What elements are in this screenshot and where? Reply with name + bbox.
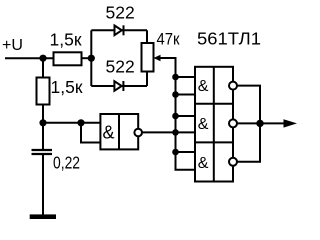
resistor R1 1,5k horizontal body xyxy=(54,52,82,65)
IC D1.2-D1.4 buffer gates body xyxy=(195,67,233,182)
ground symbol xyxy=(30,214,56,219)
wire input +U xyxy=(5,57,54,59)
wire R1 to diode loop xyxy=(82,57,92,59)
wire to potentiometer top xyxy=(146,30,148,43)
node bus junction 4 xyxy=(172,129,179,136)
node bus junction 3 xyxy=(172,113,179,120)
gate D1.3 output inversion circle xyxy=(229,119,237,127)
svg-text:1,5к: 1,5к xyxy=(51,77,83,97)
wire capacitor to ground xyxy=(42,155,44,215)
svg-text:&: & xyxy=(198,78,209,95)
wire output xyxy=(260,122,285,124)
wire R2 bottom lead to RC node xyxy=(42,105,44,150)
diode VD2 522 (bottom) xyxy=(114,81,121,91)
wire wiper to bus xyxy=(160,58,196,170)
node gate input tie junction xyxy=(77,119,84,126)
wire bus stub input 2 xyxy=(176,94,196,96)
wire diode loop left vertical xyxy=(90,30,92,86)
svg-text:&: & xyxy=(103,123,115,143)
wire bus stub input 3 xyxy=(176,115,196,117)
node bus junction 1 xyxy=(172,74,179,81)
op-amp gate D1.1 oscillator NAND body xyxy=(100,114,138,149)
wire gate D1.2 output to right bus xyxy=(237,86,260,124)
node junction input/R2 xyxy=(39,55,46,62)
wire top diode branch right xyxy=(122,29,147,31)
svg-text:+U: +U xyxy=(2,37,23,54)
svg-text:&: & xyxy=(198,116,209,133)
capacitor C1 0,22 plates xyxy=(32,149,53,151)
wire input tie vertical xyxy=(81,123,100,143)
gate D1.2 output inversion circle xyxy=(229,82,237,90)
node output junction xyxy=(256,120,263,127)
wire RC node to gate inputs xyxy=(43,122,100,124)
potentiometer wiper arrow xyxy=(154,55,161,62)
svg-text:522: 522 xyxy=(106,57,135,77)
resistor R2 1,5k vertical body xyxy=(37,78,50,105)
node junction R1/diode loop xyxy=(88,55,95,62)
svg-text:0,22: 0,22 xyxy=(53,153,80,173)
svg-text:522: 522 xyxy=(106,2,135,22)
svg-text:561ТЛ1: 561ТЛ1 xyxy=(197,29,261,49)
svg-text:47к: 47к xyxy=(157,30,180,49)
wire bus stub input 1 xyxy=(176,76,196,78)
svg-text:&: & xyxy=(198,155,209,172)
svg-text:1,5к: 1,5к xyxy=(50,30,82,50)
wire top diode branch left xyxy=(91,29,114,31)
wire to potentiometer bottom xyxy=(146,72,148,87)
potentiometer R3 47k body xyxy=(142,43,154,72)
wire gate D1.4 output to right bus xyxy=(237,123,260,161)
wire bottom diode branch left xyxy=(91,85,114,87)
wire bottom diode branch right xyxy=(122,85,147,87)
op-amp gate D1.1 output inversion circle xyxy=(134,129,142,137)
wire bus stub input 5 xyxy=(176,151,196,153)
gate D1.4 output inversion circle xyxy=(229,158,237,166)
wire R2 top lead xyxy=(42,58,44,77)
wire gate D1.3 output to right bus xyxy=(237,122,260,124)
diode VD1 522 (top) xyxy=(115,26,122,36)
output arrow xyxy=(284,119,298,127)
node bus junction 5 xyxy=(172,149,179,156)
wire bus stub input 4 / oscillator feedback xyxy=(142,131,196,133)
node bus junction 2 xyxy=(172,91,179,98)
node RC junction xyxy=(39,119,46,126)
